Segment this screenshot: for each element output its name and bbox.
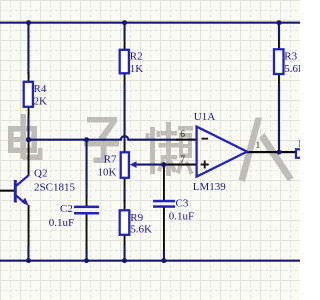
pin 7 black stub bbox=[164, 164, 197, 166]
svg-text:0.1uF: 0.1uF bbox=[49, 217, 74, 229]
resistor R9 bbox=[120, 210, 130, 235]
watermark char 电 bbox=[8, 114, 43, 160]
resistor R3 bbox=[274, 49, 284, 74]
svg-text:1: 1 bbox=[256, 141, 261, 151]
svg-text:2SC1815: 2SC1815 bbox=[34, 181, 75, 193]
wire R9 to bottom rail bbox=[124, 245, 126, 260]
svg-text:R7: R7 bbox=[104, 153, 117, 165]
svg-text:6: 6 bbox=[180, 130, 185, 140]
resistor R7 wiper arrow bbox=[130, 161, 137, 168]
svg-text:Q2: Q2 bbox=[34, 167, 47, 179]
wire R2 to R7 bbox=[124, 83, 126, 143]
pin R3 top bbox=[278, 39, 280, 49]
svg-text:R: R bbox=[298, 138, 300, 150]
svg-text:U1A: U1A bbox=[194, 111, 215, 123]
transistor Q2 collector stroke bbox=[16, 175, 29, 186]
pin R3 bottom bbox=[278, 74, 280, 84]
pin R9 top bbox=[124, 200, 126, 210]
svg-text:10K: 10K bbox=[98, 167, 117, 179]
clipped component at right edge bbox=[296, 149, 304, 158]
wire wiper to pin7 bbox=[134, 164, 164, 166]
node top-right junction bbox=[277, 20, 282, 25]
op-amp minus symbol bbox=[202, 138, 209, 140]
resistor R7 potentiometer body bbox=[121, 152, 129, 178]
watermark char 懒 bbox=[146, 122, 194, 176]
watermark char 子 bbox=[84, 117, 119, 163]
transistor Q2 emitter arrow bbox=[21, 198, 29, 206]
wire C2 branch bbox=[86, 141, 88, 197]
pin Q2 base lead bbox=[0, 190, 14, 192]
pin C3 bottom bbox=[163, 208, 165, 251]
pin R2 top bbox=[124, 40, 126, 50]
pin R2 bottom bbox=[124, 74, 126, 84]
svg-text:7: 7 bbox=[180, 155, 185, 165]
svg-text:5.6K: 5.6K bbox=[284, 63, 300, 75]
capacitor C3 plates bbox=[153, 200, 175, 203]
capacitor C2 plates bbox=[74, 206, 99, 209]
resistor R4 bbox=[24, 82, 33, 107]
svg-text:1K: 1K bbox=[130, 63, 144, 75]
wire R3 to output node bbox=[278, 84, 280, 152]
pin R9 bottom bbox=[124, 235, 126, 245]
node bottom junction 4 bbox=[161, 258, 166, 263]
wire R7 to R9 bbox=[124, 188, 126, 202]
svg-text:5.6K: 5.6K bbox=[130, 223, 152, 235]
pin Q2 emitter vertical bbox=[28, 205, 30, 245]
transistor Q2 emitter stroke bbox=[16, 196, 26, 204]
svg-text:C2: C2 bbox=[60, 203, 73, 215]
svg-text:C3: C3 bbox=[176, 197, 189, 209]
svg-text:R3: R3 bbox=[284, 50, 297, 62]
node C2 tap junction bbox=[84, 137, 89, 142]
svg-text:R9: R9 bbox=[130, 212, 143, 224]
wire mid horizontal with hop bbox=[29, 136, 179, 140]
pin op-amp output bbox=[246, 151, 296, 153]
pin R7 bottom bbox=[124, 178, 126, 188]
node bottom junction 2 bbox=[84, 258, 89, 263]
pin C2 bottom bbox=[86, 215, 88, 251]
pin R4 bottom bbox=[28, 107, 30, 119]
node bottom junction 3 bbox=[122, 258, 127, 263]
wire pin6 black stub bbox=[176, 139, 197, 141]
wire R4 to mid junction bbox=[27, 117, 29, 140]
wire bottom rail bbox=[0, 260, 300, 262]
node mid-left junction bbox=[26, 137, 31, 142]
svg-text:0.1uF: 0.1uF bbox=[169, 210, 194, 222]
node top-mid junction bbox=[122, 20, 127, 25]
transistor Q2 base bar bbox=[14, 180, 17, 203]
wire R2 branch top bbox=[124, 22, 126, 40]
op-amp plus symbol bbox=[201, 161, 209, 169]
watermark char 人 bbox=[239, 118, 294, 183]
wire emitter to bottom rail bbox=[27, 245, 29, 260]
op-amp U1A triangle bbox=[197, 127, 247, 177]
wire C2 to bottom rail bbox=[86, 250, 88, 260]
svg-text:2K: 2K bbox=[34, 96, 48, 108]
svg-text:R2: R2 bbox=[130, 51, 143, 63]
pin R7 top bbox=[124, 143, 126, 152]
node output junction bbox=[277, 150, 282, 155]
node bottom junction 1 bbox=[26, 258, 31, 263]
pin Q2 collector vertical bbox=[28, 141, 30, 177]
pin R4 top bbox=[28, 72, 30, 82]
svg-text:R4: R4 bbox=[34, 83, 47, 95]
resistor R2 bbox=[120, 50, 129, 74]
wire R4 branch vertical bbox=[27, 22, 29, 74]
wire top rail bbox=[0, 22, 300, 24]
svg-text:LM139: LM139 bbox=[193, 181, 227, 193]
wire C3 to bottom rail bbox=[163, 250, 165, 260]
pin C3 top bbox=[163, 166, 165, 200]
wire R3 branch top bbox=[278, 22, 280, 39]
pin C2 top bbox=[86, 196, 88, 206]
node top-left junction bbox=[26, 20, 31, 25]
node C3 tap junction bbox=[161, 162, 166, 167]
